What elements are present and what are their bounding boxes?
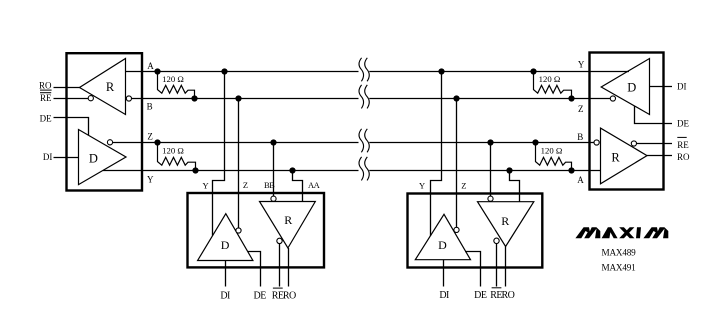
- logo counters (white cutouts of the two M glyphs): [582, 229, 664, 240]
- wire RO (U3): [288, 248, 290, 287]
- line-break squiggles on bus A: [359, 58, 369, 82]
- wire stub U4 pin Z to bus B: [456, 99, 458, 228]
- svg-text:R: R: [501, 214, 509, 228]
- receiver triangle U4-R: [478, 202, 534, 247]
- svg-text:Z: Z: [243, 180, 248, 190]
- svg-text:R: R: [611, 151, 620, 165]
- wire DI (U4): [443, 260, 445, 287]
- svg-text:Z: Z: [147, 132, 153, 142]
- bubble on RE (U3): [277, 238, 282, 243]
- svg-text:120 Ω: 120 Ω: [541, 146, 563, 156]
- wire bus Y (left Y to right A): [103, 170, 601, 172]
- wire stub U4 pin BB to bus Z: [490, 143, 492, 196]
- bubble on B input (U2): [594, 140, 599, 145]
- bubble on Z input (U2): [610, 96, 615, 101]
- line-break squiggles on bus Z: [359, 129, 369, 153]
- svg-text:DE: DE: [40, 113, 52, 123]
- transceiver U1 box (left MAX491): [67, 53, 143, 190]
- junction dots bus Z: [154, 139, 538, 145]
- svg-text:R: R: [284, 213, 292, 227]
- receiver triangle U3-R: [260, 202, 316, 249]
- bubble on Z output (U4): [454, 227, 459, 232]
- resistor R4 120ohm (B-A termination right): [536, 143, 572, 171]
- wire stub U3 pin AA to bus Y: [293, 171, 303, 202]
- wire DE (U1): [54, 118, 89, 136]
- wire DI (U3): [225, 261, 227, 287]
- wire stub U3 pin Z to bus B: [238, 99, 240, 228]
- bubble on RE (U2): [631, 141, 636, 146]
- bubble on RE (U4): [494, 238, 499, 243]
- wire RE (U4): [496, 244, 498, 287]
- svg-text:Z: Z: [578, 104, 584, 114]
- wire RO (U1): [54, 87, 81, 89]
- svg-text:Y: Y: [203, 180, 209, 190]
- svg-text:RE: RE: [40, 93, 52, 103]
- overline of RE (U1): [40, 92, 51, 93]
- wire bus A (top pair, left A to right Y): [126, 71, 629, 73]
- svg-text:120 Ω: 120 Ω: [162, 146, 184, 156]
- bubble on BB input (U4): [488, 196, 493, 201]
- svg-text:A: A: [147, 61, 154, 71]
- junction dots bus Y: [192, 167, 574, 173]
- stub transceiver U4 box (right drop): [408, 194, 543, 268]
- wire bus B (left B to right Z): [131, 98, 610, 100]
- svg-text:DE: DE: [474, 290, 487, 301]
- svg-text:AA: AA: [308, 180, 321, 190]
- svg-text:RO: RO: [677, 152, 690, 162]
- bubble on RE (U1): [88, 96, 93, 101]
- wire RE (U3): [279, 244, 281, 287]
- transceiver U2 box (right MAX491): [590, 53, 664, 190]
- resistor R1 120ohm (A-B termination left): [158, 72, 195, 99]
- wire DI (U1): [54, 157, 79, 159]
- svg-text:DI: DI: [677, 82, 687, 92]
- driver triangle U2-D: [601, 59, 649, 115]
- svg-text:RO: RO: [39, 81, 52, 91]
- junction dots bus A: [154, 68, 536, 74]
- bubble on BB input (U3): [271, 196, 276, 201]
- svg-text:R: R: [106, 80, 115, 94]
- receiver triangle U1-R: [80, 59, 126, 115]
- svg-text:DE: DE: [677, 118, 689, 128]
- wire RO (U4): [505, 247, 507, 287]
- svg-text:DE: DE: [254, 290, 267, 301]
- resistor R2 120ohm (Z-Y termination left): [158, 143, 196, 171]
- overline of RE (U4): [492, 287, 502, 288]
- svg-text:A: A: [577, 175, 584, 185]
- wire DI (U2): [650, 86, 673, 88]
- svg-text:RO: RO: [501, 290, 514, 301]
- svg-text:DI: DI: [439, 290, 449, 301]
- svg-text:DI: DI: [220, 290, 230, 301]
- wire DE (U2): [635, 106, 673, 124]
- svg-text:BB: BB: [264, 180, 275, 190]
- wire DE (U3): [248, 252, 261, 287]
- svg-text:Z: Z: [461, 180, 466, 190]
- wire DE (U4): [465, 252, 481, 287]
- svg-text:Y: Y: [578, 60, 585, 70]
- driver triangle U4-D: [415, 214, 470, 259]
- line-break squiggles on bus Y: [359, 157, 369, 181]
- svg-text:B: B: [147, 102, 153, 112]
- svg-text:D: D: [89, 152, 98, 166]
- bubble on Z output (U1): [107, 140, 112, 145]
- junction dots bus B: [191, 95, 574, 101]
- stub transceiver U3 box (left drop): [188, 193, 325, 267]
- svg-text:B: B: [577, 132, 583, 142]
- overline of RE (U3): [273, 288, 283, 289]
- MAXIM logo: [575, 227, 668, 238]
- svg-text:Y: Y: [419, 181, 425, 191]
- wire stub U3 pin Y to bus A: [213, 72, 225, 236]
- overline of RE (U2): [677, 137, 686, 138]
- wire bus Z (left Z to right B): [113, 142, 594, 144]
- svg-text:D: D: [438, 238, 447, 252]
- wire RE (U2): [637, 143, 672, 145]
- svg-text:DI: DI: [43, 152, 53, 162]
- svg-text:RE: RE: [677, 140, 689, 150]
- receiver triangle U2-R: [601, 128, 648, 184]
- wire RE (U1): [54, 98, 89, 100]
- svg-text:MAX491: MAX491: [602, 262, 637, 272]
- svg-text:Y: Y: [147, 174, 154, 184]
- bubble on B input (U1): [126, 96, 131, 101]
- wire RO (U2): [647, 155, 672, 157]
- svg-text:RO: RO: [283, 290, 296, 301]
- driver triangle U3-D: [198, 214, 253, 261]
- underline of RO (U1): [40, 90, 52, 91]
- driver triangle U1-D: [79, 130, 127, 185]
- wire stub U4 pin AA to bus Y: [510, 171, 520, 203]
- svg-text:MAX489: MAX489: [602, 248, 637, 258]
- line-break squiggles on bus B: [359, 85, 369, 109]
- resistor R3 120ohm (Y-Z termination right): [534, 72, 572, 99]
- wire stub U4 pin Y to bus A: [431, 72, 442, 237]
- svg-text:120 Ω: 120 Ω: [539, 74, 561, 84]
- wire stub U3 pin BB to bus Z: [273, 143, 275, 196]
- svg-text:120 Ω: 120 Ω: [162, 74, 184, 84]
- svg-text:D: D: [221, 238, 230, 252]
- bubble on Z output (U3): [236, 228, 241, 233]
- svg-text:D: D: [627, 81, 636, 95]
